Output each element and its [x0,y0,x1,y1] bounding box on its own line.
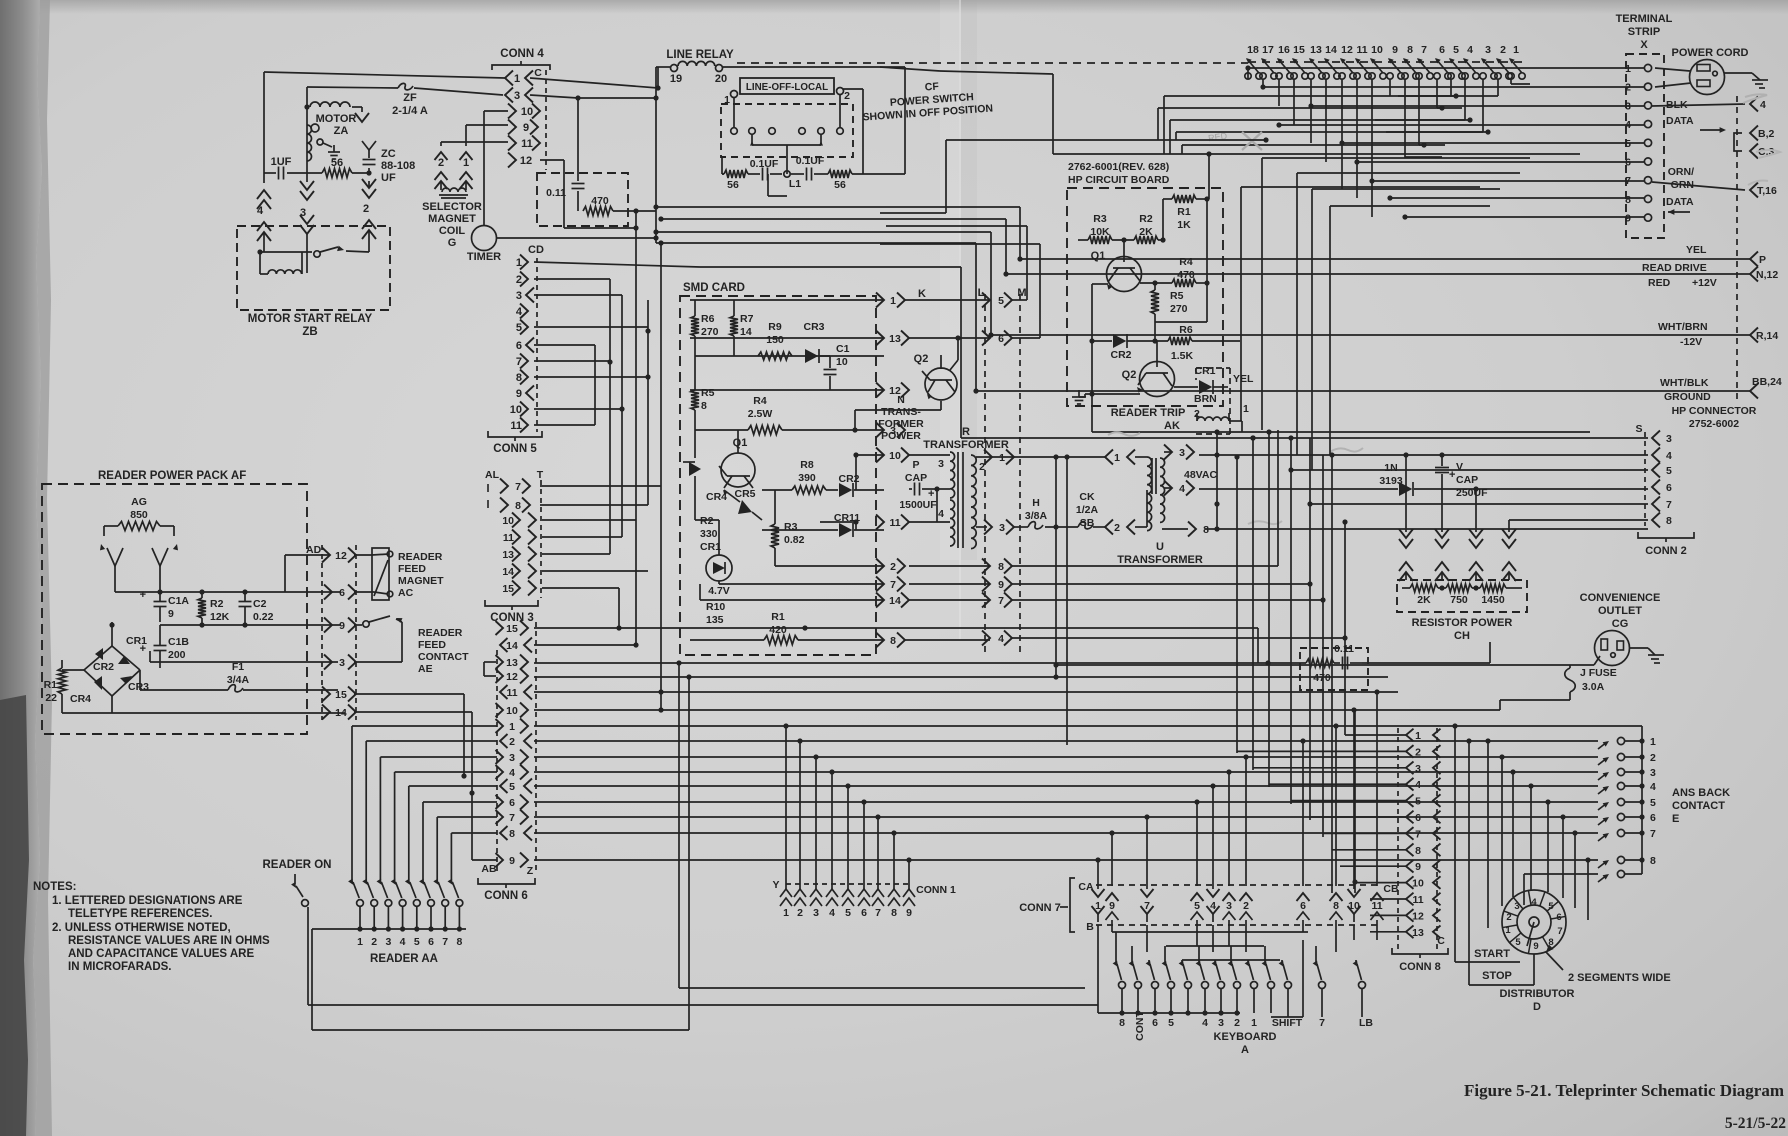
svg-text:R2: R2 [210,598,224,610]
svg-text:TRANS-: TRANS- [881,406,921,418]
label 2 SEGMENTS WIDE [1546,945,1554,953]
svg-text:2: 2 [1650,752,1656,764]
svg-text:14: 14 [506,640,518,652]
svg-text:9: 9 [516,388,522,400]
svg-text:CR2: CR2 [1110,349,1131,361]
svg-text:STOP: STOP [1482,970,1512,982]
svg-text:5-21/5-22: 5-21/5-22 [1725,1115,1786,1132]
svg-text:8: 8 [1666,515,1672,527]
wire pin14 right [354,711,472,713]
svg-text:7: 7 [998,595,1004,607]
svg-text:AK: AK [1164,420,1180,432]
node ZC [366,170,371,175]
wire outlet left [1056,664,1594,666]
svg-text:330: 330 [700,528,718,540]
capacitor 0.1UF right [791,173,804,175]
svg-text:R4: R4 [753,395,767,407]
svg-text:4.7V: 4.7V [708,585,730,597]
svg-text:1K: 1K [1177,219,1191,231]
wire pin8 right [905,639,990,641]
seven LB stubs [1321,1013,1323,1017]
page left torn edge [0,0,42,1136]
svg-text:8: 8 [515,500,521,512]
svg-text:2: 2 [890,561,896,573]
svg-text:11: 11 [503,532,514,544]
wire bus y219 [658,216,663,221]
svg-text:WHT/BLK: WHT/BLK [1660,377,1709,389]
conn 4 pin 10 [508,104,516,119]
AD pin 12 [285,554,330,556]
svg-text:12: 12 [520,155,532,167]
svg-text:9: 9 [1625,213,1631,225]
ans vertical drops to distributor [1487,741,1489,928]
svg-text:LB: LB [1359,1017,1373,1029]
conn 8 pin 7 [1406,827,1414,840]
svg-text:CR1: CR1 [700,541,721,553]
conn 3 pin 8 [500,498,508,513]
hp pin R,14 [1750,328,1758,343]
svg-text:AL: AL [485,469,500,481]
wire elbow 1020 to P [1019,207,1021,259]
svg-text:1: 1 [509,721,515,733]
wire selector pin1 up [465,125,467,146]
svg-text:CR5: CR5 [734,488,755,500]
svg-text:C2: C2 [253,598,267,610]
svg-text:CR3: CR3 [803,321,824,333]
svg-text:4: 4 [1531,897,1537,908]
svg-text:M: M [1017,287,1026,299]
wire left vertical [263,72,265,173]
svg-text:8: 8 [1625,194,1631,206]
svg-text:10: 10 [889,450,901,462]
svg-text:BRN: BRN [1194,393,1217,405]
svg-text:11: 11 [1371,900,1382,912]
power cord plug [1690,60,1725,95]
wire right mesh y173 [1297,172,1520,174]
vertical 1310 [1309,438,1311,820]
svg-text:8: 8 [998,561,1004,573]
svg-text:CR4: CR4 [70,693,91,705]
reader switch 1 [351,726,353,880]
conn 8 pin 8 [1406,844,1414,857]
svg-text:R2: R2 [700,515,714,527]
svg-text:Q1: Q1 [1091,250,1106,262]
capacitor C2 0.22 [239,601,252,603]
svg-text:14: 14 [889,595,901,607]
connector pin 4 pair [257,190,271,199]
svg-text:WHT/BRN: WHT/BRN [1658,321,1708,333]
svg-text:6: 6 [509,797,515,809]
wire BB24 [976,390,1750,392]
svg-text:3/8A: 3/8A [1025,510,1048,522]
svg-text:7: 7 [1650,828,1656,840]
svg-text:10: 10 [836,356,848,368]
svg-text:11: 11 [521,138,533,150]
svg-text:5: 5 [1548,901,1554,912]
svg-text:88-108: 88-108 [381,160,415,172]
keyboard switch 1 [1247,960,1249,962]
svg-text:AG: AG [131,496,147,508]
svg-text:3: 3 [890,425,896,437]
wire elbow 961 down [960,267,962,438]
wire terminal2 drop [843,88,863,90]
wire cd pin3 [534,294,622,296]
wire START [1454,726,1456,962]
svg-text:11: 11 [506,687,517,699]
vertical 1330 long [1331,455,1333,893]
svg-text:CONT: CONT [1134,1011,1146,1041]
bottom long wire y988 [679,987,1085,989]
wire bus y207 [653,204,658,209]
svg-text:1: 1 [463,157,469,169]
reader trip dashed subbox [1229,368,1231,434]
svg-text:135: 135 [706,614,724,626]
svg-text:START: START [1474,948,1510,960]
svg-text:READER: READER [398,551,443,563]
svg-text:R: R [962,426,970,438]
wire to ZC node [352,172,369,174]
wire K to L [905,299,990,301]
svg-text:+: + [1449,469,1455,481]
svg-text:13: 13 [889,333,901,345]
svg-text:11: 11 [510,420,522,432]
svg-text:CONN 1: CONN 1 [916,884,956,896]
bus 628 [534,627,1258,629]
svg-text:+12V: +12V [1692,277,1717,289]
vertical 1291 [1290,438,1292,804]
svg-text:2: 2 [1625,82,1631,94]
svg-text:11: 11 [1412,894,1423,906]
conn 8 pin 9 [1406,860,1414,873]
svg-text:SELECTOR: SELECTOR [422,201,482,213]
svg-text:RED: RED [1648,277,1671,289]
conn3 upper wires right [540,485,661,487]
wire cd pin6 [534,344,595,346]
wire elbow 1040 [880,243,1040,245]
svg-text:56: 56 [727,179,739,191]
wire cd pin1 [534,262,700,267]
antenna right [152,548,168,566]
vertical 1323 [1322,455,1324,837]
reader trip coil AK [1197,417,1229,421]
svg-text:3: 3 [385,936,391,948]
ans back contact row 6 [1598,818,1607,825]
svg-text:CONTACT: CONTACT [418,651,469,663]
keyboard switch 6 [1148,960,1150,962]
svg-text:1: 1 [1251,1017,1257,1029]
smd card dashed box [680,296,876,655]
svg-text:A: A [1241,1044,1249,1056]
svg-text:V: V [1456,461,1463,473]
wire M corner up [1012,299,1027,301]
conn8 dashed boundaries [1397,728,1399,952]
smd pin 8 [876,633,884,648]
svg-text:LINE RELAY: LINE RELAY [666,49,734,61]
svg-text:3: 3 [509,752,515,764]
svg-text:6: 6 [1625,157,1631,169]
wire line relay left [656,66,670,68]
vertical 1524 to distributor [1523,874,1525,905]
svg-text:KEYBOARD: KEYBOARD [1214,1031,1277,1043]
svg-text:8: 8 [1119,1017,1125,1029]
connector arrow down [352,106,362,108]
power switch CF dashed box [721,104,853,157]
svg-text:7: 7 [1415,828,1421,840]
svg-text:3: 3 [1485,44,1491,56]
wire pin3 row [150,661,338,663]
node R1 right [1204,196,1209,201]
wire vertical 648 [647,300,649,377]
svg-text:0.1UF: 0.1UF [796,155,825,167]
wire conn4 pin3 right [530,95,578,98]
svg-text:11: 11 [1356,44,1367,56]
svg-text:R4: R4 [1179,256,1193,268]
wire y504 to conn2 [1310,503,1648,505]
svg-text:20: 20 [715,73,727,85]
svg-text:15: 15 [335,689,347,701]
svg-text:0.11: 0.11 [546,187,566,199]
svg-text:8: 8 [891,907,897,919]
transformer U [1147,457,1152,531]
svg-text:7: 7 [1421,44,1427,56]
switch bank drops [1247,68,1249,79]
svg-text:CAP: CAP [905,472,927,484]
wire A from switch area [880,67,940,71]
svg-text:POWER CORD: POWER CORD [1672,47,1749,59]
svg-text:5: 5 [845,907,851,919]
wire cd pin8 [534,376,648,378]
hp pin N,12 [1750,267,1758,282]
bus 817 [534,816,1598,818]
keyboard switch CONT [1131,946,1133,962]
wire conn7 riser [1353,710,1355,860]
pencil w/grn right [1330,448,1363,452]
reader feed magnet AC [372,548,389,600]
svg-text:E: E [1672,813,1679,825]
svg-text:X: X [1640,39,1648,51]
svg-text:FORMER: FORMER [878,418,924,430]
bus 786 [534,785,1598,787]
motor winding vertical [307,125,312,161]
svg-text:UF: UF [381,172,396,184]
svg-text:DATA: DATA [1666,115,1694,127]
wire elbow 991b to R14 [990,232,992,335]
keyboard connectors nested [1112,931,1308,933]
svg-text:12: 12 [335,550,347,562]
svg-text:1: 1 [890,295,896,307]
svg-text:6: 6 [428,936,434,948]
svg-text:S: S [1635,423,1642,435]
wire bus y243 [661,242,976,244]
svg-text:ZC: ZC [381,148,396,160]
svg-text:5: 5 [998,295,1004,307]
wire switch left drop [721,157,723,174]
svg-text:7: 7 [515,481,521,493]
svg-text:13: 13 [1310,44,1322,56]
wire y455 to conn2 [1199,454,1648,456]
svg-text:3: 3 [1650,767,1656,779]
svg-text:3: 3 [516,290,522,302]
distributor needle [1527,922,1534,946]
smd pin 7 [719,583,884,585]
LINE-OFF-LOCAL box [740,78,834,94]
wire pin15 right [354,693,464,695]
wire smd pin15 to R [937,488,950,490]
wire smd pin11 to R [909,521,950,523]
svg-text:HP CONNECTOR: HP CONNECTOR [1672,405,1757,417]
svg-text:9: 9 [1533,941,1538,952]
svg-text:14: 14 [335,707,347,719]
conn 1 pin 9 [903,889,915,897]
svg-text:470: 470 [591,195,609,207]
bus 802 [534,801,1598,803]
svg-text:10: 10 [1371,44,1383,56]
svg-text:17: 17 [1262,44,1274,56]
wire P [1020,258,1750,260]
reader on switch [294,874,296,884]
conn 5 bracket [488,431,542,437]
svg-text:9: 9 [1415,861,1421,873]
wire conn7 riser [1245,757,1247,860]
keyboard riser stubs [1097,925,1099,1013]
capacitor 0.1UF left [748,173,760,175]
svg-text:FEED: FEED [418,639,446,651]
svg-text:56: 56 [834,179,846,191]
svg-text:8: 8 [456,936,462,948]
wire Q1 emitter [1092,283,1108,285]
svg-text:10: 10 [510,404,522,416]
connector selector pin 1 [460,152,473,160]
wire Q1 collector right [1140,282,1172,284]
reader power pack dashed box [42,484,307,734]
resistor 1450 [1472,587,1480,589]
hp pin C,3 [1750,144,1758,159]
bus 860 [534,859,1598,861]
bus 677 [534,676,1388,678]
U pin 4 [1164,487,1172,489]
svg-text:3: 3 [1514,901,1519,912]
svg-text:2: 2 [1243,900,1249,912]
svg-text:ZF: ZF [403,92,417,104]
svg-text:270: 270 [1170,303,1188,315]
hp circuit board dashed box [1067,188,1223,406]
svg-text:L1: L1 [789,178,801,190]
bus 710 [534,709,1500,711]
conn 8 pin 2 [1406,745,1414,758]
svg-text:6: 6 [516,340,522,352]
svg-text:0.11: 0.11 [1334,643,1354,655]
svg-text:R,14: R,14 [1756,330,1778,342]
svg-text:5: 5 [414,936,420,948]
svg-text:1: 1 [1505,925,1511,936]
svg-text:Z: Z [527,865,534,877]
smd pin 2 [775,565,884,567]
svg-text:COIL: COIL [439,225,466,237]
svg-text:CG: CG [1612,618,1629,630]
svg-text:6: 6 [1300,900,1306,912]
conn 2 pin 3 [1652,431,1660,446]
svg-text:B,2: B,2 [1758,128,1775,140]
connector pin 3 pair [300,181,314,190]
svg-text:1: 1 [999,452,1005,464]
wire pin3 up to Q2 [852,427,857,432]
wire ZF feed [307,87,398,88]
svg-text:CB: CB [1383,883,1399,895]
wire A vertical into HP board [1208,154,1210,199]
wire right mesh y206 [1330,205,1490,207]
vertical 689 [688,677,690,1005]
wire pin12 to magnet [354,554,372,556]
svg-text:12: 12 [1341,44,1353,56]
conn7 B dashed [1096,924,1380,926]
vertical 1237 [1236,457,1238,753]
svg-text:2: 2 [509,736,515,748]
svg-text:STRIP: STRIP [1628,26,1660,38]
wire cd pin11 [534,424,595,426]
conn 4 pin 12 [508,153,516,168]
svg-text:1500UF: 1500UF [899,499,937,511]
AD pin 6 [324,585,332,600]
power resistor chevron column 3 [1475,489,1477,532]
ans back contact row 1 [1598,742,1607,749]
wire conn4 pin1 to line relay [530,78,658,88]
svg-text:18: 18 [1247,44,1259,56]
antenna left [107,548,123,566]
svg-text:470: 470 [1313,672,1331,684]
svg-text:3: 3 [1415,763,1421,775]
wire conn7 riser [1111,833,1113,860]
svg-text:5: 5 [509,781,515,793]
selector magnet coil G [440,181,442,186]
conn2 pin dots [1214,452,1219,457]
svg-text:4: 4 [257,205,264,217]
wire conn4 pin12 right [540,159,564,161]
U pin 3 [1164,451,1172,453]
reader switch 6 [422,802,424,880]
bus 833 [534,832,1598,834]
wire bus y232 [653,229,658,234]
bus 645 [534,644,636,646]
svg-text:7: 7 [1319,1017,1325,1029]
resistor 56 right [828,170,852,178]
svg-text:8: 8 [701,400,707,412]
hp pin 4 [1750,97,1758,112]
AD dashed boundaries [321,545,323,720]
svg-text:15: 15 [506,623,518,635]
svg-text:B: B [1086,921,1094,933]
wire vertical 1241 [1241,186,1480,188]
U pin 2 [1105,520,1113,535]
svg-text:4: 4 [1666,450,1672,462]
AD pin 9 [324,618,332,633]
svg-text:56: 56 [331,157,343,169]
svg-text:R5: R5 [1170,290,1184,302]
svg-text:8: 8 [509,828,515,840]
svg-text:R7: R7 [740,313,754,325]
svg-text:1: 1 [783,907,789,919]
svg-text:9: 9 [906,907,912,919]
svg-text:7: 7 [875,907,881,919]
svg-text:1N: 1N [1384,462,1397,474]
hp pin T,16 [1750,183,1758,198]
svg-text:11: 11 [889,517,900,529]
svg-text:CONN 7: CONN 7 [1019,902,1061,914]
svg-text:CR1: CR1 [126,635,147,647]
wire conn7 riser [1146,817,1148,860]
svg-text:250UF: 250UF [1456,487,1488,499]
svg-text:5: 5 [1666,465,1672,477]
ans back contact row 5 [1598,803,1607,810]
